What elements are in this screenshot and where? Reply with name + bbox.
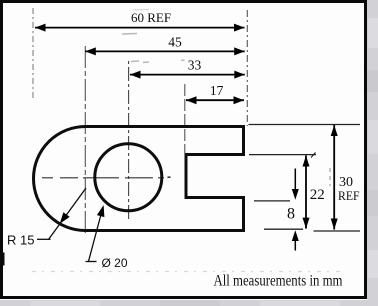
part outline (34, 127, 244, 231)
centerline x=128.6 (hole center) (128, 61, 130, 220)
scan noise above 60REF (133, 9, 149, 11)
svg-text:60 REF: 60 REF (131, 10, 171, 25)
dimension 17 (186, 83, 244, 104)
extension line top right (y=124.5) (249, 124, 361, 126)
dimension 33 (130, 58, 245, 79)
extension line x=184.8 (slot left) (184, 84, 186, 153)
dimension 60 REF (35, 10, 245, 31)
svg-text:22: 22 (310, 187, 325, 203)
centerline x=85.3 (arc center) (84, 46, 86, 236)
dimension 8 (287, 169, 299, 251)
scan noise marks (122, 34, 185, 63)
svg-text:33: 33 (188, 58, 202, 73)
horizontal centerline (42, 177, 164, 179)
scan noise row bottom (32, 271, 345, 273)
hole circle O20 (95, 144, 162, 211)
grey scan band bottom (0, 300, 378, 306)
grey scan band right (367, 0, 378, 306)
leader O 20 (86, 205, 128, 270)
svg-text:8: 8 (287, 206, 295, 223)
dimension 22 (303, 156, 325, 229)
tick at 22 arrow (311, 153, 316, 158)
svg-text:All measurements in mm: All measurements in mm (214, 272, 343, 289)
faint dash x=330 (329, 168, 331, 186)
svg-text:17: 17 (210, 83, 224, 98)
leader R 15 (7, 188, 86, 248)
svg-text:REF: REF (338, 188, 360, 203)
extension line bottom right segment (314, 230, 361, 232)
extension line slot top right (y=154.6) (249, 154, 316, 156)
extension line slot bottom (y=200.9) (254, 200, 290, 202)
dimension 30 REF (331, 125, 360, 230)
svg-text:Ø 20: Ø 20 (102, 256, 128, 270)
svg-text:R 15: R 15 (7, 233, 34, 248)
svg-text:45: 45 (168, 35, 182, 50)
extension line bottom left segment (264, 228, 303, 230)
extension line x=247.3 (part right) (246, 10, 248, 126)
dimension 45 (85, 35, 244, 56)
frame blob artifact left (0, 253, 5, 266)
extension line x=33 (part left) (32, 8, 34, 100)
